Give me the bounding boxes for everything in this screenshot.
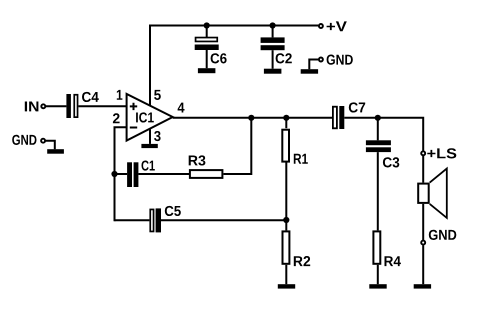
junction node output/R3 xyxy=(248,115,254,121)
capacitor C3 xyxy=(366,140,399,167)
ground below C2 xyxy=(264,69,282,74)
wire C4 to pin1 xyxy=(78,105,126,107)
terminal +LS xyxy=(421,148,456,158)
capacitor C4 xyxy=(66,92,98,118)
terminal +V xyxy=(319,21,347,31)
wire C2 branch bottom xyxy=(272,50,274,68)
capacitor C5 xyxy=(150,206,181,233)
wire C5 right to R2 node xyxy=(161,219,286,221)
junction node output/R1 xyxy=(283,115,289,121)
ground below R2 xyxy=(278,284,295,288)
pin 2 label xyxy=(113,113,120,123)
wire R1 top xyxy=(285,118,287,128)
pin 5 label xyxy=(154,90,161,100)
ground below R4 xyxy=(369,284,386,288)
wire speaker to GND terminal xyxy=(422,204,424,240)
wire +LS to speaker xyxy=(422,156,424,183)
capacitor C1 xyxy=(127,160,155,187)
wire GND top-right L xyxy=(309,60,318,70)
wire GND terminal to ground xyxy=(422,245,424,284)
resistor R1 xyxy=(282,130,308,164)
wire output line xyxy=(173,117,332,119)
wire R4 to ground xyxy=(377,265,379,284)
ground pin3 xyxy=(141,144,157,148)
capacitor C2 xyxy=(261,37,292,63)
pin 1 label xyxy=(117,90,123,100)
ground below speaker xyxy=(414,284,431,288)
resistor R4 xyxy=(373,231,401,266)
wire C5 left xyxy=(115,219,150,221)
junction node output/C3 xyxy=(375,115,381,121)
wire top rail from pin5 to +V xyxy=(150,26,318,106)
terminal IN xyxy=(25,101,46,111)
wire pin3 to ground xyxy=(149,130,151,144)
pin 3 label xyxy=(154,131,161,141)
junction node on top rail at C6 xyxy=(204,22,210,28)
wire C3 branch top xyxy=(377,118,379,141)
wire C3 to R4 xyxy=(377,152,379,230)
ground left xyxy=(47,149,64,154)
pin 4 label xyxy=(178,103,185,113)
junction node feedback/C1 xyxy=(111,171,117,177)
wire C2 branch top xyxy=(272,26,274,38)
ground top right xyxy=(301,69,318,74)
capacitor C6 xyxy=(195,38,227,64)
capacitor C7 xyxy=(333,102,365,129)
ground below C6 xyxy=(198,68,216,73)
terminal GND top right xyxy=(319,55,353,65)
wire IN to C4 xyxy=(46,105,67,107)
wire C6 branch top xyxy=(206,26,208,38)
wire node to R2 xyxy=(285,220,287,230)
junction node on top rail at C2 xyxy=(270,22,276,28)
wire C7 to LS corner xyxy=(344,118,423,151)
resistor R2 xyxy=(283,231,311,266)
wire node to C1 xyxy=(115,173,128,175)
resistor R3 xyxy=(189,155,223,178)
wire R3 up to output xyxy=(224,118,252,174)
wire C1 to R3 xyxy=(138,173,189,175)
terminal GND speaker xyxy=(421,230,456,245)
op-amp IC1 xyxy=(127,94,173,141)
wire R1 bottom to node xyxy=(285,162,287,220)
wire R2 to ground xyxy=(285,265,287,284)
wire pin2 feedback vertical xyxy=(115,127,127,221)
junction node R1/R2/C5 xyxy=(283,217,289,223)
loudspeaker LS xyxy=(418,169,447,218)
wire GND left L xyxy=(46,141,55,150)
terminal GND left xyxy=(12,135,45,145)
wire C6 branch bottom xyxy=(206,50,208,68)
